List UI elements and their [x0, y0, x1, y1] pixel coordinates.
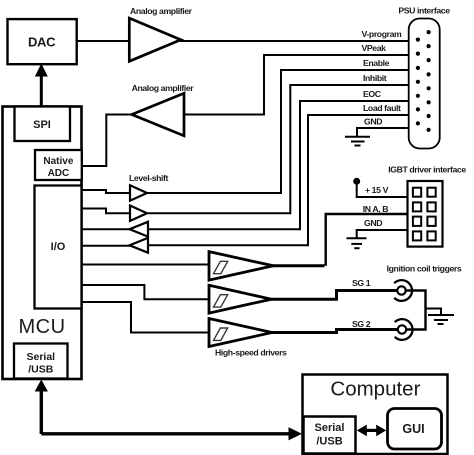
svg-text:SPI: SPI [33, 119, 51, 131]
svg-text:Ignition coil triggers: Ignition coil triggers [387, 264, 462, 274]
svg-text:MCU: MCU [18, 316, 65, 338]
svg-text:GUI: GUI [402, 422, 424, 436]
svg-text:Serial: Serial [315, 422, 345, 434]
svg-text:High-speed drivers: High-speed drivers [215, 348, 287, 358]
svg-text:Computer: Computer [330, 378, 420, 401]
svg-text:VPeak: VPeak [362, 43, 387, 53]
svg-text:Analog amplifier: Analog amplifier [132, 83, 195, 93]
svg-text:/USB: /USB [28, 364, 54, 376]
svg-text:GND: GND [364, 117, 382, 127]
svg-text:SG 2: SG 2 [352, 319, 371, 329]
svg-text:I/O: I/O [51, 241, 66, 253]
svg-text:IN A, B: IN A, B [363, 204, 388, 214]
svg-text:Load fault: Load fault [363, 103, 401, 113]
svg-text:GND: GND [364, 218, 382, 228]
svg-text:EOC: EOC [363, 89, 382, 99]
svg-text:+ 15 V: + 15 V [365, 185, 389, 195]
svg-text:Serial: Serial [26, 351, 55, 363]
svg-text:Level-shift: Level-shift [129, 173, 169, 183]
svg-text:Inhibit: Inhibit [363, 73, 387, 83]
svg-text:ADC: ADC [48, 168, 70, 179]
svg-text:SG 1: SG 1 [352, 278, 371, 288]
svg-text:/USB: /USB [316, 436, 342, 448]
svg-text:Analog amplifier: Analog amplifier [130, 6, 193, 16]
svg-text:PSU interface: PSU interface [398, 6, 450, 16]
svg-text:IGBT driver interface: IGBT driver interface [388, 165, 466, 175]
svg-text:Native: Native [43, 156, 73, 167]
svg-text:V-program: V-program [362, 29, 403, 39]
svg-text:Enable: Enable [363, 58, 390, 68]
svg-text:DAC: DAC [28, 35, 56, 50]
